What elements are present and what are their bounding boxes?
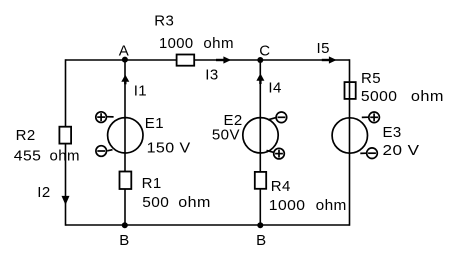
svg-text:150 V: 150 V: [147, 139, 191, 156]
svg-text:I4: I4: [268, 80, 281, 97]
svg-text:I1: I1: [134, 82, 147, 99]
svg-text:R3: R3: [154, 13, 174, 30]
svg-text:E3: E3: [383, 124, 402, 141]
svg-text:I2: I2: [37, 184, 50, 201]
svg-text:ohm: ohm: [178, 194, 211, 211]
svg-text:A: A: [119, 43, 129, 60]
svg-text:ohm: ohm: [316, 197, 347, 214]
svg-text:I5: I5: [317, 40, 330, 57]
svg-text:R1: R1: [142, 175, 162, 192]
svg-text:I3: I3: [205, 67, 218, 84]
svg-text:1000: 1000: [269, 197, 306, 214]
svg-text:455: 455: [14, 148, 42, 165]
svg-text:B: B: [119, 232, 129, 249]
svg-text:R4: R4: [271, 178, 291, 195]
svg-text:R5: R5: [361, 70, 381, 87]
svg-text:50V: 50V: [212, 127, 240, 144]
svg-text:ohm: ohm: [411, 88, 444, 105]
svg-text:5000: 5000: [361, 88, 398, 105]
svg-text:1000: 1000: [159, 35, 194, 52]
svg-text:ohm: ohm: [203, 35, 234, 52]
svg-text:ohm: ohm: [50, 148, 80, 165]
svg-text:B: B: [256, 232, 266, 249]
svg-text:C: C: [259, 43, 270, 60]
svg-text:20 V: 20 V: [383, 142, 420, 159]
svg-text:500: 500: [142, 194, 169, 211]
svg-text:E1: E1: [145, 115, 164, 132]
svg-text:R2: R2: [16, 127, 36, 144]
